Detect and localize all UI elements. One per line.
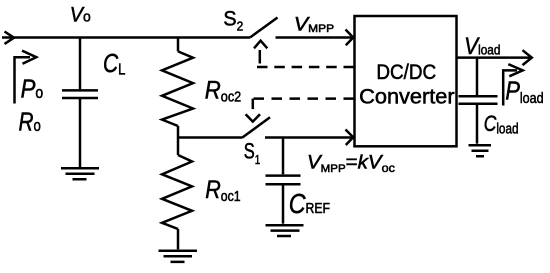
svg-text:Converter: Converter: [359, 84, 455, 108]
switch S1 blade: [242, 117, 270, 138]
wire C_L branch: [79, 38, 82, 90]
wire top bus: [2, 36, 250, 39]
wire node junction to S1: [178, 136, 242, 139]
wire V_MPP to converter: [276, 30, 354, 46]
switch S2 blade: [250, 18, 278, 38]
wire C_load branch: [476, 58, 479, 95]
wire C_REF to ground: [282, 184, 285, 224]
svg-text:DC/DC: DC/DC: [376, 60, 436, 84]
capacitor C_REF: [266, 176, 301, 185]
wire R_oc2 bottom lead: [177, 126, 180, 138]
arrow P_load: [503, 64, 523, 105]
control arrow S2: [254, 41, 267, 49]
wire S1 to converter: [265, 130, 353, 146]
resistor R_oc1: [162, 155, 192, 229]
ground (C_L): [61, 168, 99, 179]
wire C_L to ground: [79, 98, 82, 167]
wire R_oc2 top lead: [177, 38, 180, 52]
dashed control line S1: [253, 99, 354, 112]
ground (C_load): [469, 145, 492, 156]
capacitor C_L: [62, 90, 98, 98]
wire V_load: [457, 50, 532, 65]
dashed control line S2: [257, 50, 354, 67]
input arrow: [5, 32, 15, 44]
wire R_oc1 top lead: [177, 138, 180, 156]
ground (C_REF): [266, 225, 304, 236]
block DC/DC converter: [355, 16, 457, 146]
wire C_load to ground: [476, 104, 479, 144]
wire R_oc1 bottom lead: [177, 229, 180, 249]
wire C_REF branch: [282, 138, 285, 175]
control arrow S1: [246, 114, 260, 121]
ground (R_oc1): [159, 251, 198, 262]
resistor R_oc2: [162, 51, 193, 126]
capacitor C_load: [459, 96, 498, 104]
arrow P_o: [15, 51, 37, 104]
